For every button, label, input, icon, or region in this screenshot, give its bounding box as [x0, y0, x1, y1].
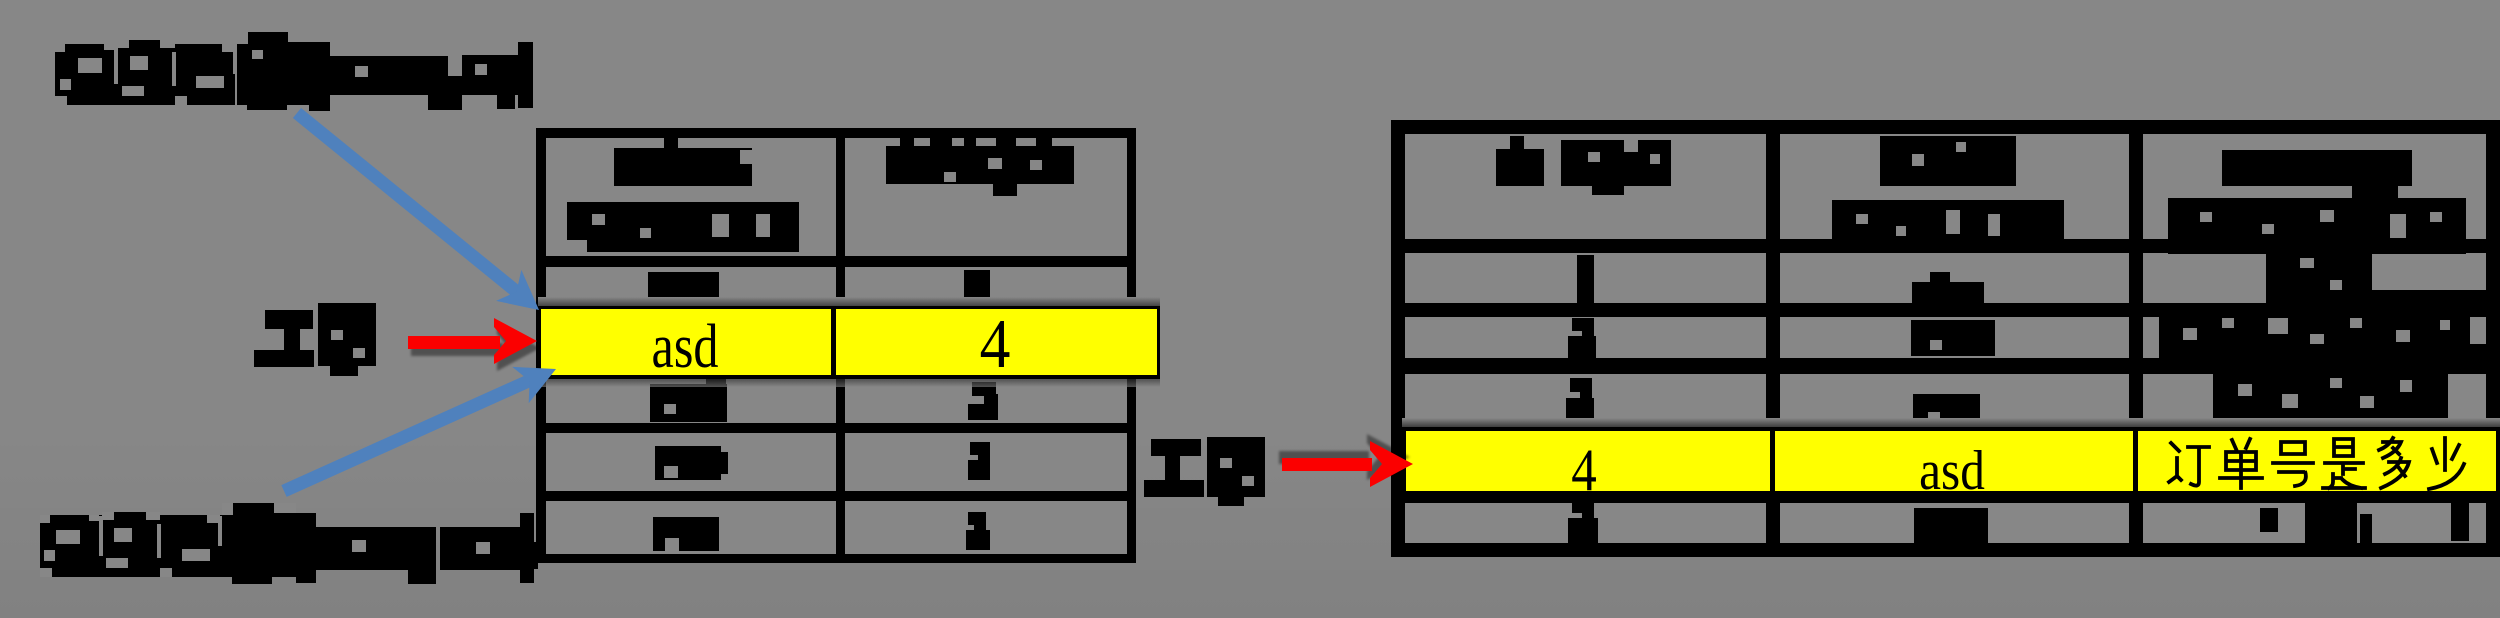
table T1 black frame	[536, 128, 1136, 563]
T2 header col1 blob	[1496, 136, 1671, 195]
red arrow right (with shadow)	[1279, 434, 1413, 487]
label GAP-top-left (censored mosaic text)	[55, 32, 533, 111]
T1 header col2 blob	[886, 134, 1074, 196]
glyph dan	[2220, 439, 2262, 488]
T1 header col1 line2 blob	[567, 202, 799, 252]
T2 header col3 line2 blob	[2168, 198, 2466, 254]
left table	[536, 128, 1136, 563]
T2 r3c3 blob band	[2213, 367, 2448, 426]
label GAP-bottom-left (censored mosaic text)	[40, 503, 538, 584]
T2 r5c1 blob (3)	[1568, 500, 1598, 543]
svg-text:4: 4	[1571, 437, 1597, 504]
T2 header col3 line1 blob	[2222, 150, 2412, 186]
T1 header cells	[546, 138, 836, 256]
glyph duo	[2379, 438, 2409, 488]
glyph ding	[2169, 443, 2209, 486]
T1 r2c2 blob (2)	[968, 382, 998, 420]
T2 r1c1 blob (1)	[1577, 255, 1594, 305]
T1 r1c1 blob	[648, 272, 719, 306]
table T2 black frame	[1391, 120, 2500, 557]
glyph shao	[2429, 438, 2464, 489]
label swap-right (censored red-arrow label)	[1144, 437, 1265, 506]
label swap-left (censored red-arrow label)	[254, 303, 376, 376]
right yellow strip	[1402, 427, 2500, 503]
T2 r2c2 blob	[1911, 320, 1995, 356]
blue arrow top (from GAP label to left strip)	[297, 113, 552, 326]
T1 r2c1 blob	[650, 384, 727, 422]
svg-text:asd: asd	[652, 313, 719, 381]
T2 row3 cells	[1405, 374, 1766, 426]
right yellow strip shadow	[1402, 418, 2500, 429]
T2 header col2 line2 blob	[1832, 200, 2064, 252]
T1 r1c2 blob (1)	[964, 270, 990, 308]
right table	[1391, 120, 2500, 557]
T2 r1c2 blob	[1912, 282, 1984, 312]
T2 header cells	[1405, 134, 1766, 239]
T2 r2c1 blob (3)	[1568, 318, 1596, 358]
T2 r2c3 blob band	[2159, 311, 2470, 362]
T1 header col1 line1 blob	[614, 136, 752, 186]
svg-text:4: 4	[980, 305, 1011, 383]
T1 row1 cells	[546, 267, 836, 306]
T1 row3 cells	[546, 433, 836, 491]
left yellow strip shadow	[538, 297, 1160, 309]
T1 r3c1 blob	[655, 446, 721, 480]
svg-text:asd: asd	[1919, 440, 1985, 502]
T2 r3c2 blob	[1913, 394, 1980, 430]
T2 row5 cells	[1405, 503, 1766, 543]
red arrow left (with shadow)	[408, 318, 540, 371]
T1 r4c2 blob	[966, 512, 990, 550]
T1 r3c2 blob (3)	[968, 442, 990, 480]
T2 row4 cells	[1405, 441, 1766, 491]
T2 r5c2 blob	[1914, 508, 1988, 543]
T2 row2 cells	[1405, 317, 1766, 358]
left yellow strip	[538, 306, 1160, 379]
T1 row4 cells	[546, 501, 836, 554]
T2 r1c3 blob	[2266, 254, 2372, 307]
blue arrow bottom (from GAP label to left strip)	[284, 351, 564, 491]
T2 row1 cells	[1405, 253, 1766, 303]
T2 r5c3 blobs	[2260, 494, 2469, 543]
T1 r4c1 blob	[653, 517, 719, 551]
glyph shi	[2323, 439, 2365, 488]
right strip CJK text (drawn glyphs)	[2169, 438, 2464, 489]
subtle bottom shading	[0, 430, 2500, 618]
glyph hao	[2273, 442, 2313, 486]
T2 r3c1 blob (3)	[1566, 378, 1594, 430]
T2 header col2 line1 blob	[1880, 136, 2016, 186]
T1 row2 cells	[546, 316, 836, 423]
